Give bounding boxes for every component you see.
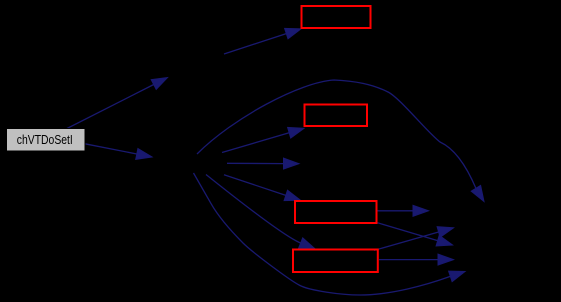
edge node B to node E, bottom curve wire [194, 173, 466, 295]
node chVTDoSetI (current function, grey) [7, 129, 86, 152]
edge red box 3 to node D, wire [378, 205, 429, 216]
edge red box 3 to node E, wire [378, 223, 453, 246]
edge node B to red box 3, wire [224, 175, 301, 201]
edge node B to node C, wire [227, 158, 299, 169]
edge red box 4 to node D, wire [374, 227, 454, 251]
node box3 (red highlighted) [295, 201, 377, 223]
edge chVTDoSetI to node A, wire [67, 78, 168, 129]
edge node A to red box 1, wire [224, 28, 301, 54]
svg-text:chVTDoSetI: chVTDoSetI [17, 132, 73, 147]
edge red box 4 to node E, wire [379, 254, 454, 265]
edge node B to red box 2, wire [222, 127, 304, 152]
node box4 (red highlighted) [293, 250, 378, 273]
node box2 (red highlighted) [305, 105, 368, 127]
edge chVTDoSetI to node B, wire [85, 144, 152, 160]
node box1 (red highlighted) [302, 6, 371, 28]
edge node B to red box 4, curved wire [206, 175, 315, 249]
edge node B to node D, top arc wire [197, 80, 484, 202]
